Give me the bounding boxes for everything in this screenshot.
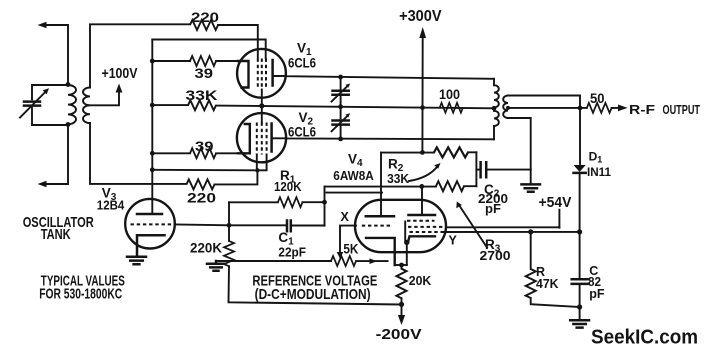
resistor 220 top — [190, 20, 218, 30]
wire 39 upper row — [152, 60, 238, 62]
V4 pentode cathode — [408, 236, 435, 242]
wire X lead to 5K wiper — [340, 226, 356, 253]
potentiometer 5K — [331, 256, 356, 266]
capacitor C1 — [229, 221, 325, 232]
node +300V at grid row — [420, 105, 425, 110]
arrow -200V — [398, 304, 405, 325]
node rail +54V row — [577, 229, 582, 234]
svg-text:12B4: 12B4 — [97, 198, 125, 213]
wire triode plate lead vertical — [380, 153, 382, 217]
arrow R3 label pointer — [456, 202, 487, 248]
inductor tank secondary coil — [83, 88, 90, 124]
wire V2 plate row to output transformer — [272, 138, 494, 139]
ground V3 cathode — [127, 257, 146, 264]
resistor R 47K — [526, 232, 580, 307]
node rail 47K bottom — [577, 304, 582, 309]
capacitor C 82pF — [572, 232, 588, 319]
variable capacitor tank C — [20, 85, 68, 125]
wire bus top to V1 grid3 — [152, 40, 265, 59]
ground 5K row — [207, 261, 225, 271]
wire V1 plate row to output transformer — [273, 76, 494, 79]
resistor R2 33K — [434, 147, 468, 157]
wire secondary bottom down and right to 220 row — [90, 123, 187, 184]
pentode V2 6CL6 envelope — [237, 113, 286, 162]
svg-text:OUTPUT: OUTPUT — [663, 103, 701, 117]
triode V3 12B4 envelope — [125, 199, 175, 249]
V2 plate — [270, 124, 273, 152]
V3 plate — [137, 213, 162, 216]
node output transformer center tap — [492, 106, 497, 111]
wire pentode grid1 left lead down — [404, 222, 406, 241]
svg-text:SeekIC.com: SeekIC.com — [591, 327, 698, 349]
svg-text:50: 50 — [590, 91, 605, 106]
svg-text:2700: 2700 — [480, 248, 511, 263]
svg-text:IN11: IN11 — [587, 165, 611, 179]
svg-text:100: 100 — [439, 87, 460, 102]
svg-text:6AW8A: 6AW8A — [333, 168, 374, 183]
wire 5K row with ground — [216, 260, 331, 262]
wire V2 control grid up to junction — [261, 106, 263, 123]
V1 grid1 dashed — [257, 59, 259, 90]
wire R1 row left corner — [229, 201, 278, 203]
resistor 39 lower — [190, 148, 216, 158]
wire secondary top to top rail — [90, 24, 190, 87]
node R 47K top — [528, 229, 533, 234]
svg-text:6CL6: 6CL6 — [288, 55, 316, 70]
wire pentode grid row to rail — [443, 231, 580, 233]
inductor output transformer primary — [494, 79, 499, 140]
resistor 50 — [587, 103, 612, 113]
svg-text:+100V: +100V — [102, 65, 138, 82]
wire R3 row — [325, 185, 477, 187]
wire 220 to V1 grid1 — [218, 25, 258, 58]
svg-text:33K: 33K — [387, 171, 410, 186]
node tank top — [66, 82, 71, 87]
ground output transformer — [522, 184, 541, 191]
svg-text:R-F: R-F — [629, 103, 655, 117]
wire +300V bus vertical — [421, 37, 423, 153]
wire cathodes joined bottom — [395, 264, 407, 266]
arrow +100V — [116, 84, 123, 93]
V4 pentode grid row1 dashed — [407, 220, 435, 222]
svg-text:39: 39 — [195, 138, 214, 154]
V1 grid2 dashed — [261, 59, 263, 90]
V3 grid — [131, 223, 173, 225]
svg-text:120K: 120K — [274, 179, 302, 194]
wire V1 control grid down to junction — [261, 90, 263, 106]
wire 5K right with arrow — [356, 258, 388, 264]
node R2 bus tap — [420, 150, 425, 155]
resistor 33K — [188, 100, 216, 110]
resistor 20K — [397, 265, 407, 304]
node screens junction — [255, 168, 259, 172]
wire 33K grid row to transformer center tap — [152, 105, 494, 108]
trimmer capacitor lower — [332, 107, 351, 139]
wire secondary top lead — [508, 95, 580, 97]
node V1 V2 grids junction — [259, 103, 264, 108]
V4 triode cathode — [366, 238, 395, 265]
wire left bus vertical — [151, 40, 153, 214]
svg-text:-200V: -200V — [376, 326, 422, 343]
svg-text:(D-C+MODULATION): (D-C+MODULATION) — [255, 286, 371, 303]
arrow +300V — [419, 27, 426, 38]
node bus 39 row — [150, 59, 155, 64]
wire cathode lead down — [406, 242, 408, 265]
svg-text:20K: 20K — [409, 273, 432, 288]
V2 grid3 dashed — [266, 123, 268, 155]
wire pentode plate lead — [421, 186, 423, 215]
node bus V3 plate row — [150, 167, 155, 172]
svg-text:39: 39 — [195, 65, 214, 81]
node trimmer mid junction — [338, 104, 343, 109]
wire 220 lower to V2 screen riser — [215, 170, 258, 184]
svg-text:33K: 33K — [186, 87, 218, 103]
svg-text:Y: Y — [449, 233, 458, 247]
wire riser x324 — [324, 187, 326, 226]
svg-text:pF: pF — [589, 287, 605, 301]
wire 220K bottom to rail — [229, 266, 402, 304]
V4 triode plate — [366, 215, 394, 218]
diode D1 1N11 — [574, 165, 586, 232]
wire secondary tap to output junction — [508, 107, 580, 109]
node 220K grid line — [227, 223, 232, 228]
resistor 220 lower — [187, 179, 215, 189]
svg-text:47K: 47K — [536, 277, 559, 291]
V4 pentode plate — [409, 214, 436, 217]
svg-text:TANK: TANK — [41, 226, 71, 243]
inductor output transformer secondary — [503, 96, 510, 119]
node bus 33K row — [150, 103, 155, 108]
node -200V rail junction — [399, 302, 404, 307]
svg-text:22pF: 22pF — [278, 244, 306, 259]
wire V3 grid lead — [175, 223, 229, 226]
wire secondary bottom to ground leg — [508, 118, 531, 183]
wire R2 R3 right vertical — [475, 152, 477, 186]
capacitor C2 2200pF — [476, 162, 530, 177]
wire V2 screen grids to bottom bar — [257, 155, 267, 171]
svg-text:+54V: +54V — [539, 195, 572, 211]
node R1 riser — [322, 200, 327, 205]
node pentode cathode suppressor — [404, 240, 409, 245]
node tank bottom — [66, 122, 71, 127]
wire V3 plate row to V2 screens — [152, 169, 257, 172]
svg-text:pF: pF — [485, 201, 501, 216]
svg-text:+300V: +300V — [399, 8, 442, 25]
node cathode 20K junction — [399, 263, 404, 268]
V1 cathode — [238, 61, 249, 88]
svg-text:220K: 220K — [190, 241, 222, 256]
V2 grid1 dashed — [256, 123, 258, 155]
wire 39 lower row — [152, 152, 238, 154]
V2 cathode — [238, 124, 250, 153]
V2 grid2 dashed — [261, 123, 263, 155]
wire top-left feed with arrow — [38, 22, 69, 84]
pentode V1 6CL6 envelope — [237, 49, 286, 98]
V4 pentode grid row3 dashed — [410, 231, 444, 233]
svg-text:FOR 530-1800KC: FOR 530-1800KC — [39, 285, 122, 302]
inductor tank primary coil — [68, 85, 76, 124]
trimmer capacitor upper — [332, 75, 351, 107]
node trimmer bottom junction — [338, 137, 343, 142]
svg-text:6CL6: 6CL6 — [288, 125, 316, 140]
wire pentode screen to +54V row — [446, 226, 559, 228]
node R3 pentode plate tap — [419, 184, 424, 189]
wire right rail top — [579, 96, 581, 165]
wire tank bottom arrow out — [38, 126, 69, 187]
wire 220K leg vertical — [228, 202, 230, 241]
wire double stub under R3 row — [327, 192, 383, 194]
resistor 100 — [440, 103, 463, 113]
resistor 39 upper — [190, 56, 216, 66]
wire R2 row — [381, 151, 476, 153]
V1 plate — [271, 60, 274, 86]
V3 cathode — [137, 235, 165, 255]
resistor R1 120K — [278, 197, 303, 207]
svg-text:5K: 5K — [343, 241, 358, 257]
wire R1 right to riser — [303, 201, 325, 203]
svg-text:220: 220 — [187, 190, 216, 206]
arrow 5K wiper — [337, 252, 344, 259]
V4 pentode grid row2 dashed — [408, 226, 446, 228]
arrow R2 label pointer — [409, 163, 441, 181]
wire +54V stub — [558, 210, 560, 228]
resistor R3 2700 — [436, 181, 464, 191]
wire RF output with arrow — [580, 105, 628, 112]
V4 triode grid dashed — [362, 225, 393, 227]
tube V4 6AW8A envelope — [355, 200, 446, 252]
node output junction — [578, 106, 583, 111]
svg-text:220: 220 — [191, 9, 219, 25]
ground right rail — [570, 320, 589, 327]
svg-text:X: X — [341, 210, 350, 224]
wire +100V tap — [88, 91, 119, 105]
V1 grid3 dashed — [265, 59, 267, 90]
node bus 39 lower row — [150, 151, 155, 156]
resistor 220K — [224, 241, 234, 266]
